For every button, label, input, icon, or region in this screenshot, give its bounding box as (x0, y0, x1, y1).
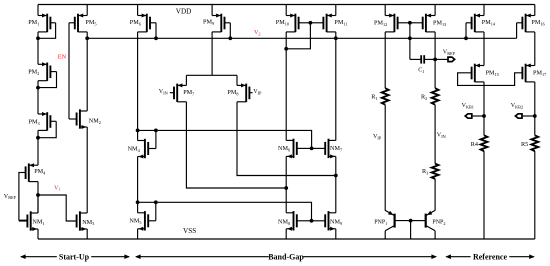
wire NM2 drain (86, 38, 88, 111)
node NM5 drain (136, 200, 140, 204)
resistor R2 (421, 88, 439, 105)
svg-text:NM1: NM1 (32, 218, 44, 225)
svg-text:Reference: Reference (473, 252, 508, 261)
wire NM5 gate riser (155, 202, 157, 221)
wire PM14 source stub (483, 5, 485, 16)
svg-text:PM8: PM8 (227, 89, 238, 96)
node VKB1 tap (482, 114, 486, 118)
wire PM1 gate wrap (38, 23, 56, 39)
svg-text:VIP: VIP (253, 89, 262, 95)
svg-text:NM2: NM2 (89, 118, 101, 125)
wire NM5 mirror line (138, 202, 312, 221)
label VIP diff (253, 89, 262, 95)
wire R1 to PNP1 (384, 105, 386, 211)
wire PM14 drain to PM15 (483, 32, 485, 66)
wire PM4 drain to V1 (37, 182, 39, 213)
transistor PNP1 (374, 210, 394, 230)
transistor PM2 (28, 62, 56, 81)
transistor NM5 (129, 211, 155, 231)
transistor PM6 (130, 14, 156, 33)
node PM9 gate (228, 36, 232, 40)
wire VREF gate line (19, 173, 28, 221)
svg-text:Start-Up: Start-Up (59, 252, 90, 261)
wire PM15 drain (483, 82, 485, 135)
svg-text:Band-Gap: Band-Gap (268, 252, 304, 261)
transistor PM11 (310, 14, 347, 33)
transistor PM4 (20, 163, 46, 182)
node PNP bases (409, 219, 413, 223)
transistor PM10 (276, 14, 311, 33)
svg-text:PM15: PM15 (486, 70, 499, 77)
wire PM12 source stub (384, 5, 386, 16)
wire PM5 drain (86, 32, 88, 38)
node PM2 drain (36, 86, 40, 90)
wire PNP1 base (395, 220, 411, 222)
transistor PM9 (203, 14, 230, 33)
svg-text:PM1: PM1 (28, 19, 39, 26)
transistor NM3 (77, 211, 95, 231)
wire V1 to NM3 gate (38, 195, 77, 221)
transistor NM1 (19, 211, 45, 231)
svg-text:PM17: PM17 (533, 70, 547, 77)
transistor PM8 (227, 83, 252, 102)
label VKB1 (462, 103, 474, 109)
wire PM6 drain to NM4 (137, 32, 139, 141)
wire PM13 drain to R2 (434, 32, 436, 88)
wire NM1 drain (37, 195, 39, 213)
wire PM7 source drop (185, 75, 187, 85)
label V2 (254, 30, 261, 36)
svg-text:PM5: PM5 (85, 19, 96, 26)
svg-text:PM6: PM6 (130, 19, 142, 26)
wire NM7 source to NM9 (335, 156, 337, 212)
svg-text:C1: C1 (418, 67, 424, 73)
resistor R1 (371, 88, 388, 105)
wire PM17 drain (534, 82, 536, 135)
wire PM16 source stub (534, 5, 536, 16)
svg-text:VDD: VDD (176, 8, 192, 16)
svg-text:PM9: PM9 (203, 19, 214, 26)
svg-text:VSS: VSS (183, 227, 196, 235)
section arrow Reference (445, 252, 535, 261)
wire NM4 gate riser (155, 130, 157, 148)
node NM4 gate (154, 129, 158, 133)
wire C1 right lead (424, 58, 435, 60)
wire PM1 source stub (37, 5, 39, 16)
svg-text:EN: EN (58, 54, 67, 61)
wire PNP1 collector (384, 231, 386, 239)
wire PM10 drain (285, 32, 287, 141)
label VIN branch (437, 133, 446, 139)
node gate line on bus (408, 36, 412, 40)
svg-text:VREF: VREF (4, 194, 17, 200)
svg-text:VKB2: VKB2 (511, 103, 523, 109)
resistor R3 (422, 164, 439, 179)
label VKB2 (511, 103, 523, 109)
svg-text:R4: R4 (471, 141, 478, 148)
node VKB2 tap (533, 114, 537, 118)
wire PM10/11 gate line (286, 23, 310, 49)
svg-text:V2: V2 (254, 30, 261, 36)
wire NM1 source (37, 229, 39, 239)
svg-text:NM5: NM5 (129, 218, 141, 225)
transistor PM13 (410, 14, 446, 33)
VSS rail (38, 238, 535, 240)
port VKB2 (515, 114, 522, 118)
node PM11 drain on bus (334, 36, 338, 40)
svg-text:NM6: NM6 (278, 145, 291, 152)
wire PNP2 base (411, 220, 426, 222)
svg-text:NM8: NM8 (278, 219, 290, 226)
wire PM12 drain to R1 (384, 32, 386, 88)
svg-text:VKB1: VKB1 (462, 103, 474, 109)
wire VKB1 lead (472, 115, 484, 117)
wire PM1 drain chain (37, 32, 39, 64)
wire PM2 drain chain (37, 81, 39, 114)
node PM14 gate (464, 36, 468, 40)
svg-text:VIN: VIN (159, 89, 168, 95)
node PM10 drain diode tap (284, 47, 288, 51)
svg-text:PNP2: PNP2 (432, 219, 445, 225)
svg-text:VREF: VREF (443, 49, 456, 55)
resistor R5 (521, 135, 538, 151)
svg-text:PM14: PM14 (482, 19, 496, 26)
node PM8 drain join (334, 174, 338, 178)
wire C1 left lead (410, 58, 421, 60)
svg-text:R1: R1 (371, 94, 377, 101)
node PM7 drain join (284, 186, 288, 190)
wire PM2 gate wrap (38, 72, 57, 88)
wire NM4 mirror line (138, 130, 312, 148)
wire R4 to VSS (483, 151, 485, 239)
node NM5 gate (154, 200, 158, 204)
wire PM6 source stub (137, 5, 139, 16)
transistor PM14 (466, 14, 496, 33)
svg-text:PM16: PM16 (531, 19, 545, 26)
wire PM11 source stub (335, 5, 337, 16)
wire PM14 gate to bus (465, 23, 467, 39)
transistor NM8 (278, 211, 312, 231)
node core bottom gates (310, 219, 314, 223)
wire PM13 source stub (434, 5, 436, 16)
wire PNP base ground (410, 221, 412, 239)
wire V2 bus (87, 37, 516, 39)
label VIP branch (373, 134, 382, 140)
svg-text:VIN: VIN (437, 133, 446, 139)
svg-text:PM7: PM7 (183, 89, 195, 96)
wire NM9 source (335, 229, 337, 239)
svg-text:NM3: NM3 (82, 219, 94, 226)
VDD label (176, 8, 192, 16)
wire NM3 source (86, 229, 88, 239)
svg-text:VIP: VIP (373, 134, 382, 140)
transistor PM1 (28, 14, 55, 33)
wire PM6 gate to bus (155, 23, 157, 39)
svg-text:NM4: NM4 (128, 145, 141, 152)
svg-text:PM13: PM13 (433, 19, 446, 26)
svg-text:NM9: NM9 (330, 219, 342, 226)
transistor NM7 (312, 139, 343, 159)
wire R5 to VSS (534, 151, 536, 239)
transistor PM3 (29, 112, 57, 131)
svg-text:PM2: PM2 (28, 69, 39, 76)
svg-text:NM7: NM7 (330, 145, 343, 152)
svg-text:PNP1: PNP1 (374, 219, 387, 225)
node PM6 gate (154, 36, 158, 40)
transistor NM9 (312, 211, 343, 231)
wire PM3 gate wrap (38, 121, 56, 137)
wire PM5 source stub (86, 5, 88, 16)
wire PM9 source stub (211, 5, 213, 16)
svg-text:PM3: PM3 (29, 118, 40, 125)
wire PM3 drain chain (37, 130, 39, 165)
transistor NM4 (128, 139, 156, 159)
wire PM7 drain to left core node (186, 102, 286, 188)
port VREF (448, 57, 455, 62)
transistor PM12 (374, 14, 410, 33)
transistor PM7 (170, 83, 195, 102)
svg-text:R5: R5 (521, 141, 528, 148)
node NM4 drain (136, 129, 140, 133)
section arrow Start-Up (20, 252, 130, 261)
transistor NM6 (278, 139, 312, 159)
wire NM8 source (285, 229, 287, 239)
wire PM16 drain to PM17 (534, 32, 536, 66)
VSS label (183, 227, 196, 235)
label VIN diff (159, 89, 168, 95)
wire EN net (68, 23, 70, 119)
label V1 (54, 185, 61, 191)
wire PM9 drain tail (211, 32, 213, 75)
node PM1 drain (36, 36, 40, 40)
transistor PM15 (472, 64, 499, 83)
svg-text:PM10: PM10 (276, 19, 289, 26)
transistor PM17 (522, 64, 547, 83)
transistor PM5 (69, 14, 97, 33)
wire VKB2 lead (522, 115, 535, 117)
wire NM5 source (137, 229, 139, 239)
capacitor C1 (418, 55, 424, 74)
wire R2 to R3 (434, 105, 436, 164)
wire PNP2 collector (434, 231, 436, 239)
node VREF tap (433, 58, 437, 62)
node PM5 drain on V2 bus (85, 36, 89, 40)
node PM12 gate tie (408, 21, 412, 25)
wire VREF lead (435, 58, 448, 60)
wire PM9 gate to bus (229, 23, 231, 39)
transistor PM16 (517, 14, 546, 33)
wire PM16 gate to bus end (516, 23, 518, 39)
node V1 (36, 193, 40, 197)
wire PM8 drain to right core node (237, 102, 336, 176)
resistor R4 (471, 135, 488, 151)
node core cascode gates (310, 147, 314, 151)
node PM3 drain (36, 136, 40, 140)
wire NM4 source to NM5 (137, 157, 139, 213)
svg-text:R2: R2 (421, 94, 427, 101)
wire PM10 source stub (285, 5, 287, 16)
svg-text:PM11: PM11 (334, 19, 347, 26)
wire PM8 source drop (236, 75, 238, 85)
section arrow Band-Gap (135, 252, 437, 261)
transistor NM2 (69, 109, 101, 129)
label VREF top (443, 49, 456, 55)
label EN (58, 54, 67, 61)
VDD rail (38, 4, 535, 6)
node PM10 gate tie (309, 21, 313, 25)
wire R3 to PNP2 (434, 179, 436, 211)
wire PM15/17 gate bias (458, 73, 523, 86)
label VREF left (4, 194, 17, 200)
svg-text:R3: R3 (422, 168, 428, 175)
svg-text:PM12: PM12 (374, 19, 387, 26)
svg-text:V1: V1 (54, 185, 61, 191)
wire PM11 drain (335, 32, 337, 141)
port VKB1 (465, 114, 472, 118)
svg-text:PM4: PM4 (34, 168, 46, 175)
wire NM6 source to NM8 (285, 156, 287, 212)
wire PM12/13 gate riser (409, 23, 411, 60)
wire diff pair tail (186, 74, 237, 76)
transistor PNP2 (426, 210, 446, 230)
wire NM2 source to NM3 drain (86, 127, 88, 213)
